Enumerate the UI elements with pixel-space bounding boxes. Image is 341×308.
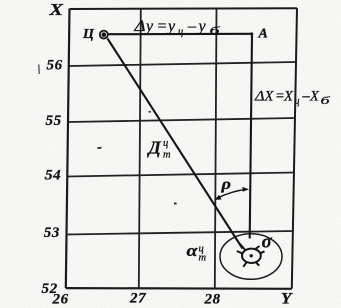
svg-text:X: X bbox=[309, 89, 320, 105]
svg-text:ц: ц bbox=[163, 138, 168, 149]
svg-text:X: X bbox=[48, 0, 64, 19]
svg-text:26: 26 bbox=[52, 291, 69, 307]
svg-text:σ: σ bbox=[262, 232, 273, 253]
label ΔX = Xц - Xб bbox=[254, 89, 331, 108]
svg-text:т: т bbox=[199, 253, 207, 264]
arrowhead at slanted line end of arc bbox=[215, 195, 222, 200]
svg-text:54: 54 bbox=[45, 168, 61, 184]
gun symbol tick lower-right bbox=[256, 263, 259, 266]
svg-text:б: б bbox=[321, 96, 331, 107]
label Δy = yц - yб bbox=[133, 18, 220, 38]
svg-text:–: – bbox=[187, 18, 197, 35]
gun symbol tick upper-left bbox=[240, 244, 245, 250]
svg-text:Δ: Δ bbox=[254, 89, 265, 105]
wire: horizontal construction line Δy from Ц to A bbox=[109, 33, 253, 36]
gun symbol tick right bbox=[261, 251, 265, 253]
point Ц (target) circle marker bbox=[100, 31, 108, 39]
svg-text:ц: ц bbox=[178, 27, 183, 38]
svg-text:Δ: Δ bbox=[133, 18, 145, 35]
svg-text:28: 28 bbox=[204, 292, 221, 308]
gun symbol tick lower-left bbox=[243, 262, 246, 267]
label Д with superscript ц and subscript т bbox=[147, 138, 172, 161]
svg-text:α: α bbox=[187, 241, 199, 260]
wire: sight line Д from Ц to battery Б bbox=[108, 39, 243, 249]
frame bottom border (Y axis) bbox=[66, 287, 292, 290]
stray scan speck (dot near 54 row) bbox=[149, 111, 151, 113]
svg-text:Д: Д bbox=[147, 138, 162, 158]
svg-text:X: X bbox=[264, 89, 275, 105]
svg-text:X: X bbox=[283, 89, 294, 105]
svg-text:y: y bbox=[166, 18, 176, 35]
svg-text:ρ: ρ bbox=[220, 176, 231, 193]
svg-text:Y: Y bbox=[281, 290, 293, 307]
battery Б outer ellipse bbox=[220, 234, 282, 280]
point Ц center dot bbox=[102, 32, 107, 37]
svg-text:56: 56 bbox=[47, 57, 63, 73]
svg-text:55: 55 bbox=[46, 113, 62, 129]
node A corner dot bbox=[250, 32, 253, 35]
frame top border bbox=[70, 7, 298, 10]
grid line X=54 bbox=[67, 173, 294, 177]
grid line X=53 bbox=[67, 231, 294, 235]
grid line X=55 bbox=[68, 118, 295, 122]
stray scan speck (vertical mark left of 56) bbox=[38, 65, 40, 75]
grid line Y=27 bbox=[139, 9, 141, 288]
stray scan speck (dash) bbox=[97, 147, 101, 149]
svg-text:б: б bbox=[210, 25, 221, 37]
gun symbol tick left bbox=[237, 251, 243, 254]
battery gun symbol inner ellipse bbox=[242, 249, 261, 263]
svg-text:=: = bbox=[157, 18, 168, 35]
svg-text:y: y bbox=[144, 18, 154, 35]
svg-text:A: A bbox=[258, 27, 268, 42]
frame left border (X axis) bbox=[66, 9, 70, 289]
svg-text:т: т bbox=[163, 150, 171, 161]
grid line X=56 bbox=[69, 62, 296, 66]
label α with superscript ц and subscript т bbox=[187, 241, 207, 264]
svg-text:Ц: Ц bbox=[82, 27, 95, 42]
stray scan speck (dot) bbox=[174, 203, 177, 205]
arrowhead at vertical line end of arc bbox=[242, 187, 249, 192]
gun symbol tick upper-right bbox=[255, 246, 260, 250]
wire: vertical construction line from A down to battery bbox=[250, 34, 252, 239]
svg-text:27: 27 bbox=[129, 291, 146, 307]
svg-text:53: 53 bbox=[44, 225, 60, 241]
stray scan speck (dot before 54) bbox=[44, 177, 46, 179]
angle P arc with arrowheads bbox=[217, 189, 247, 198]
svg-text:ц: ц bbox=[295, 96, 300, 107]
svg-text:y: y bbox=[197, 18, 207, 35]
grid line Y=28 bbox=[215, 9, 217, 289]
battery gun symbol center dot bbox=[250, 254, 253, 257]
frame right border bbox=[292, 8, 297, 288]
